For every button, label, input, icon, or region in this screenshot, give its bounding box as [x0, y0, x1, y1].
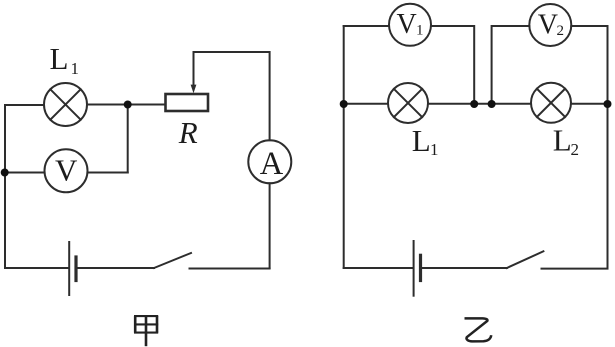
svg-text:1: 1 — [430, 140, 439, 159]
svg-text:V: V — [538, 9, 558, 40]
svg-text:L: L — [50, 41, 69, 76]
svg-text:L: L — [553, 123, 572, 158]
svg-text:R: R — [178, 115, 198, 150]
svg-text:V: V — [55, 153, 78, 188]
svg-text:1: 1 — [71, 59, 80, 78]
svg-text:A: A — [260, 146, 284, 182]
svg-text:L: L — [412, 123, 431, 158]
svg-text:2: 2 — [557, 23, 565, 39]
svg-text:2: 2 — [571, 140, 580, 159]
svg-text:1: 1 — [416, 23, 424, 39]
svg-text:V: V — [397, 9, 417, 40]
